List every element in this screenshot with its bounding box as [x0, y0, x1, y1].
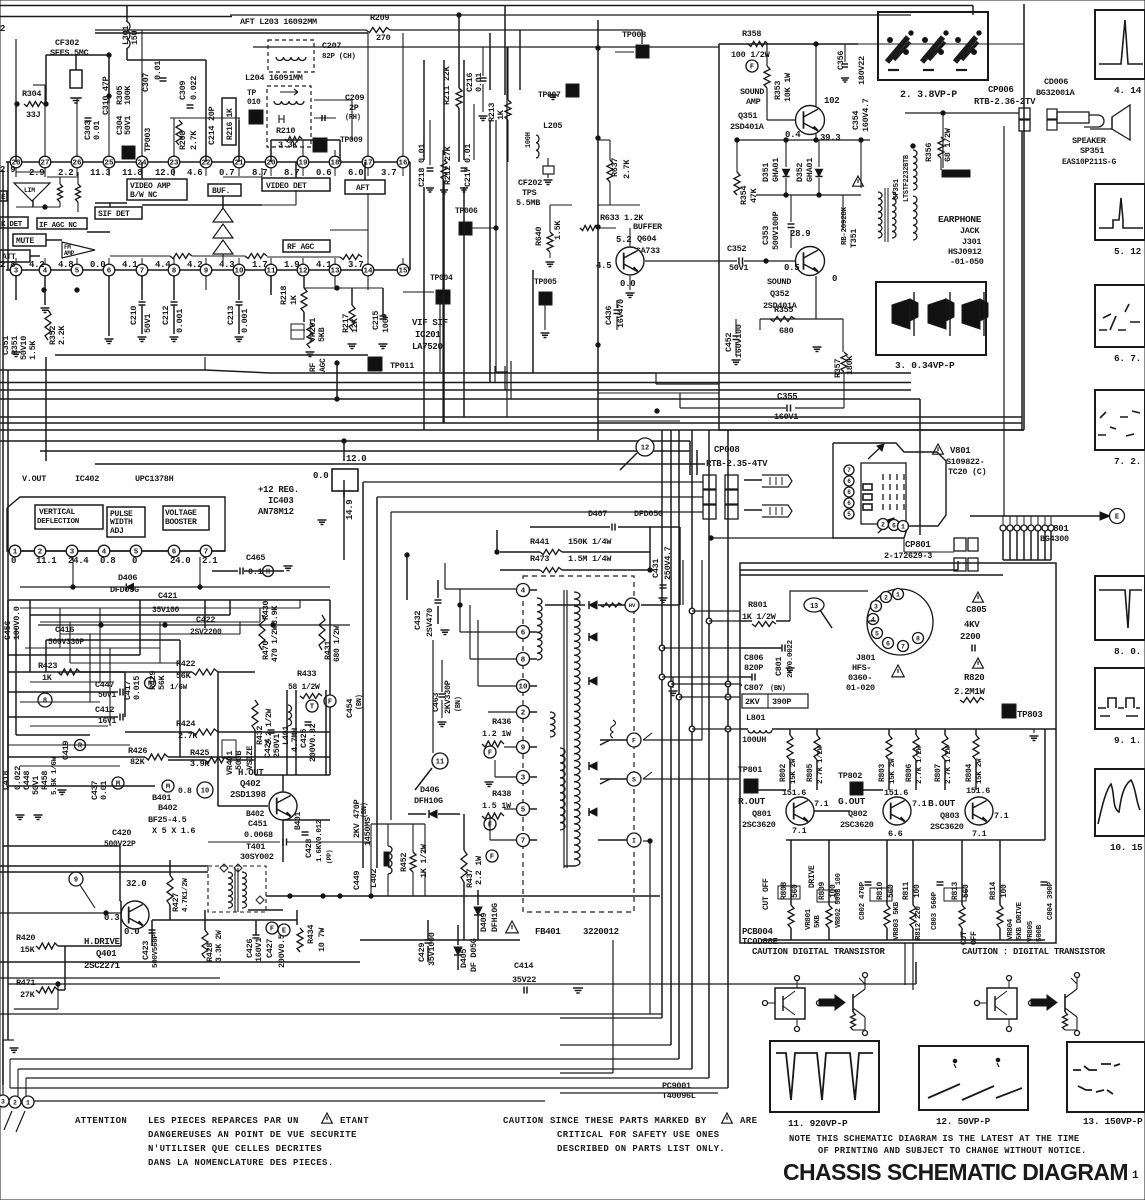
svg-text:5: 5: [75, 268, 80, 276]
svg-text:SOUND: SOUND: [767, 277, 791, 287]
svg-text:R640: R640: [534, 227, 544, 246]
svg-text:3.7: 3.7: [381, 168, 396, 178]
svg-text:R355: R355: [774, 305, 793, 315]
svg-text:50V1: 50V1: [123, 116, 133, 135]
svg-text:1K: 1K: [496, 109, 506, 120]
svg-text:D406: D406: [118, 573, 137, 583]
svg-text:14.9: 14.9: [345, 500, 355, 520]
svg-text:C454: C454: [345, 699, 355, 718]
svg-text:C355: C355: [777, 392, 797, 402]
svg-text:15K 2W: 15K 2W: [790, 758, 798, 784]
svg-text:E: E: [1115, 514, 1119, 522]
svg-text:TP011: TP011: [390, 361, 414, 371]
svg-text:C412: C412: [95, 705, 114, 715]
svg-text:C432: C432: [413, 611, 423, 630]
svg-text:R470: R470: [261, 641, 271, 660]
svg-text:10: 10: [201, 788, 209, 796]
svg-text:R809: R809: [818, 881, 827, 900]
svg-text:TP801: TP801: [738, 765, 762, 775]
svg-text:1.5M 1/4W: 1.5M 1/4W: [568, 554, 612, 564]
svg-text:5KB: 5KB: [317, 327, 327, 342]
svg-text:C310 47P: C310 47P: [101, 76, 111, 115]
svg-text:BF25-4.5: BF25-4.5: [148, 815, 187, 825]
svg-text:5: 5: [521, 807, 526, 815]
svg-text:FB401: FB401: [535, 927, 561, 937]
svg-text:13: 13: [810, 603, 818, 611]
svg-text:5: 5: [875, 630, 879, 637]
svg-text:Q402: Q402: [240, 779, 260, 789]
svg-text:10K 1W: 10K 1W: [783, 72, 793, 102]
svg-text:7.1: 7.1: [814, 799, 829, 809]
svg-text:4. 14: 4. 14: [1114, 85, 1142, 96]
svg-text:2SD1398: 2SD1398: [230, 790, 266, 800]
svg-text:AN78M12: AN78M12: [258, 507, 294, 517]
svg-text:470 1/2W: 470 1/2W: [271, 625, 280, 662]
svg-text:C353: C353: [761, 226, 771, 245]
svg-text:151.6: 151.6: [884, 788, 908, 798]
svg-text:R637: R637: [610, 158, 620, 177]
svg-text:24.4: 24.4: [68, 556, 89, 566]
svg-text:12.0: 12.0: [346, 454, 366, 464]
svg-text:C436: C436: [604, 306, 614, 325]
svg-text:4.8: 4.8: [58, 260, 73, 270]
svg-text:0.01: 0.01: [153, 61, 163, 80]
svg-text:(BN): (BN): [455, 696, 463, 712]
svg-text:BOOSTER: BOOSTER: [165, 518, 197, 527]
svg-text:R438: R438: [492, 789, 511, 799]
svg-text:PCB004: PCB004: [742, 927, 774, 937]
svg-text:R807: R807: [934, 763, 943, 782]
svg-text:R452: R452: [399, 853, 409, 872]
svg-text:M: M: [166, 784, 170, 792]
svg-text:180K: 180K: [845, 355, 855, 375]
svg-text:102: 102: [824, 96, 839, 106]
svg-text:GHA01: GHA01: [771, 158, 781, 182]
svg-text:SINCE THESE PARTS MARKED BY: SINCE THESE PARTS MARKED BY: [550, 1116, 707, 1126]
svg-text:C431: C431: [651, 559, 661, 578]
svg-text:TP803: TP803: [1017, 710, 1043, 720]
svg-text:R304: R304: [22, 89, 41, 99]
svg-text:1/6W: 1/6W: [170, 684, 188, 692]
svg-text:180V22: 180V22: [857, 56, 867, 85]
svg-text:2.2M1W: 2.2M1W: [954, 687, 986, 697]
svg-text:R424: R424: [176, 719, 195, 729]
svg-text:7: 7: [521, 838, 526, 846]
svg-text:68 1/2W: 68 1/2W: [943, 127, 953, 162]
svg-text:Q802: Q802: [848, 809, 867, 819]
svg-text:Q351: Q351: [738, 111, 757, 121]
svg-text:ATT: ATT: [2, 253, 16, 262]
svg-text:AGC: AGC: [319, 358, 328, 372]
svg-text:151.6: 151.6: [966, 786, 990, 796]
svg-text:ETANT: ETANT: [340, 1116, 369, 1126]
svg-text:10. 15: 10. 15: [1110, 842, 1143, 853]
svg-text:6: 6: [847, 500, 851, 507]
svg-text:1: 1: [901, 523, 905, 530]
svg-text:X 5 X 1.6: X 5 X 1.6: [152, 826, 195, 836]
svg-text:TP006: TP006: [455, 207, 478, 216]
svg-text:3220012: 3220012: [583, 927, 619, 937]
svg-text:0.01: 0.01: [99, 781, 109, 800]
svg-text:4.6: 4.6: [187, 168, 202, 178]
svg-text:4KV: 4KV: [964, 620, 980, 630]
svg-text:3: 3: [874, 603, 878, 610]
svg-text:1: 1: [896, 591, 900, 598]
svg-text:25: 25: [104, 160, 114, 168]
svg-text:2: 2: [13, 1099, 17, 1106]
svg-text:C423: C423: [141, 941, 151, 960]
svg-text:DESCRIBED ON PARTS LIST ONLY.: DESCRIBED ON PARTS LIST ONLY.: [557, 1144, 725, 1154]
svg-text:C213: C213: [226, 306, 236, 325]
svg-text:11.8: 11.8: [122, 168, 142, 178]
svg-text:C801: C801: [774, 657, 784, 676]
svg-text:C465: C465: [246, 553, 265, 563]
svg-text:D405: D405: [459, 949, 469, 968]
svg-text:160V1: 160V1: [774, 412, 798, 422]
svg-text:IC403: IC403: [268, 496, 294, 506]
svg-text:2KV: 2KV: [745, 697, 761, 707]
svg-text:EAS10P211S-G: EAS10P211S-G: [1062, 158, 1117, 167]
svg-text:0.0068: 0.0068: [244, 830, 273, 840]
svg-text:G.OUT: G.OUT: [838, 796, 866, 807]
svg-text:C207: C207: [322, 41, 341, 51]
svg-text:4.4: 4.4: [155, 260, 171, 270]
svg-text:S: S: [632, 776, 636, 783]
svg-text:C418: C418: [1, 771, 11, 790]
svg-text:OF PRINTING AND SUBJECT TO CHA: OF PRINTING AND SUBJECT TO CHANGE WITHOU…: [818, 1146, 1086, 1156]
svg-text:15K 2W: 15K 2W: [976, 758, 984, 784]
svg-text:3.7: 3.7: [348, 260, 363, 270]
svg-text:TP009: TP009: [340, 136, 363, 145]
svg-text:4.3: 4.3: [219, 260, 234, 270]
svg-text:TP: TP: [247, 89, 257, 98]
svg-text:CUT: CUT: [960, 931, 969, 945]
svg-text:1.5K: 1.5K: [28, 340, 38, 360]
svg-text:5.2: 5.2: [616, 235, 631, 245]
svg-text:Q352: Q352: [770, 289, 789, 299]
svg-text:1: 1: [1132, 1170, 1139, 1182]
svg-text:R210: R210: [276, 126, 295, 136]
svg-text:8: 8: [521, 657, 526, 665]
svg-text:2.2K: 2.2K: [57, 325, 67, 345]
svg-text:VERTICAL: VERTICAL: [39, 508, 76, 517]
svg-text:C212: C212: [161, 306, 171, 325]
svg-text:5.6K 1/6W: 5.6K 1/6W: [51, 756, 59, 795]
svg-text:19: 19: [298, 160, 308, 168]
svg-text:HSJ0912: HSJ0912: [948, 247, 982, 257]
svg-text:B.OUT: B.OUT: [928, 798, 956, 809]
svg-text:680 1/2W: 680 1/2W: [333, 625, 342, 662]
svg-text:AFT L203 16092MM: AFT L203 16092MM: [240, 17, 317, 27]
svg-text:VIF SIF: VIF SIF: [412, 318, 448, 328]
svg-text:(BN): (BN): [770, 685, 786, 693]
svg-text:TP003: TP003: [143, 128, 153, 152]
svg-text:R426: R426: [128, 746, 147, 756]
svg-text:82P (CH): 82P (CH): [322, 53, 356, 61]
svg-text:2.7K: 2.7K: [189, 130, 199, 150]
svg-text:E: E: [282, 928, 286, 936]
svg-text:I: I: [632, 837, 636, 844]
svg-text:IF AGC NC: IF AGC NC: [39, 222, 78, 230]
svg-text:B402: B402: [158, 803, 177, 813]
svg-text:VSIZE: VSIZE: [245, 746, 255, 770]
svg-text:4.2: 4.2: [187, 260, 202, 270]
svg-text:1.6KV0.012: 1.6KV0.012: [316, 819, 324, 862]
svg-text:5. 12: 5. 12: [1114, 246, 1142, 257]
svg-text:26: 26: [72, 160, 82, 168]
svg-text:GHA01: GHA01: [805, 158, 815, 182]
svg-text:0: 0: [132, 556, 137, 566]
svg-text:1.9: 1.9: [284, 260, 299, 270]
svg-text:R812 220: R812 220: [915, 906, 923, 940]
svg-text:C210: C210: [129, 306, 139, 325]
svg-text:9: 9: [74, 877, 78, 885]
svg-text:RF AGC: RF AGC: [287, 243, 315, 252]
svg-text:C352: C352: [727, 244, 746, 254]
svg-text:RTB-2.35-4TV: RTB-2.35-4TV: [706, 459, 768, 469]
svg-text:4.7K1/2W: 4.7K1/2W: [182, 878, 190, 912]
svg-text:R471: R471: [16, 978, 35, 988]
svg-text:VR805: VR805: [1027, 920, 1035, 942]
svg-text:27: 27: [40, 160, 49, 168]
svg-text:0.6: 0.6: [316, 168, 331, 178]
svg-text:160V1: 160V1: [254, 938, 264, 962]
svg-text:CAUTION DIGITAL TRANSISTOR: CAUTION DIGITAL TRANSISTOR: [752, 947, 886, 957]
svg-text:C309: C309: [178, 81, 188, 100]
svg-text:LA7520: LA7520: [412, 342, 443, 352]
svg-text:L205: L205: [543, 121, 562, 131]
svg-text:R423: R423: [38, 661, 57, 671]
svg-text:CUT OFF: CUT OFF: [762, 878, 771, 910]
svg-text:100UH: 100UH: [742, 735, 766, 745]
svg-text:2SV2200: 2SV2200: [190, 628, 222, 637]
svg-text:2: 2: [521, 710, 526, 718]
svg-text:7: 7: [901, 643, 905, 650]
svg-text:1: 1: [26, 1099, 30, 1106]
svg-text:VOLTAGE: VOLTAGE: [165, 509, 197, 518]
svg-text:680: 680: [779, 326, 794, 336]
svg-text:TC0D88E: TC0D88E: [742, 937, 779, 947]
svg-text:B/W NC: B/W NC: [130, 191, 158, 200]
svg-text:DFH10G: DFH10G: [414, 796, 443, 806]
svg-text:HFS-: HFS-: [852, 663, 871, 673]
svg-text:4.1: 4.1: [122, 260, 138, 270]
svg-text:12.0: 12.0: [155, 168, 175, 178]
svg-text:R218: R218: [279, 286, 289, 305]
svg-text:24.0: 24.0: [170, 556, 190, 566]
svg-text:D352: D352: [795, 163, 805, 182]
svg-text:R803: R803: [878, 763, 887, 782]
svg-text:D407: D407: [588, 509, 607, 519]
svg-text:CRITICAL FOR SAFETY USE ONES: CRITICAL FOR SAFETY USE ONES: [557, 1130, 720, 1140]
svg-text:11.1: 11.1: [36, 556, 57, 566]
svg-text:DEFLECTION: DEFLECTION: [37, 518, 79, 526]
svg-text:R811: R811: [902, 881, 911, 900]
svg-text:7.1: 7.1: [912, 799, 927, 809]
svg-text:11. 920VP-P: 11. 920VP-P: [788, 1118, 848, 1129]
svg-text:2.7K: 2.7K: [622, 159, 632, 179]
svg-text:DF D05G: DF D05G: [469, 938, 479, 972]
svg-text:7.1: 7.1: [792, 826, 807, 836]
svg-text:R208: R208: [178, 131, 188, 150]
svg-text:SP351: SP351: [1080, 146, 1104, 156]
svg-text:10: 10: [518, 684, 528, 692]
svg-text:14: 14: [363, 268, 373, 276]
svg-text:IC402: IC402: [75, 474, 99, 484]
svg-text:(PP): (PP): [326, 850, 333, 864]
svg-text:H: H: [266, 569, 270, 577]
svg-text:Q604: Q604: [637, 234, 656, 244]
svg-text:2SC3620: 2SC3620: [742, 820, 776, 830]
svg-text:C807: C807: [744, 683, 763, 693]
svg-text:+12 REG.: +12 REG.: [258, 485, 299, 495]
svg-text:0.0: 0.0: [313, 471, 328, 481]
svg-text:9: 9: [204, 268, 209, 276]
svg-text:3.9K: 3.9K: [270, 605, 280, 625]
svg-text:2: 2: [0, 24, 5, 34]
svg-text:R434: R434: [306, 925, 316, 944]
svg-text:C214 20P: C214 20P: [207, 106, 217, 145]
svg-text:PC9001: PC9001: [662, 1081, 691, 1091]
svg-text:27K: 27K: [20, 990, 36, 1000]
svg-text:2SV470: 2SV470: [425, 608, 435, 637]
svg-text:T: T: [310, 704, 314, 712]
svg-text:82K: 82K: [130, 757, 146, 767]
svg-text:AMP: AMP: [746, 97, 761, 107]
svg-text:C804 390P: C804 390P: [1047, 881, 1055, 920]
svg-text:0.8: 0.8: [100, 556, 115, 566]
svg-text:CHASSIS SCHEMATIC DIAGRAM: CHASSIS SCHEMATIC DIAGRAM: [783, 1159, 1128, 1185]
svg-text:C451: C451: [248, 819, 267, 829]
svg-text:HV: HV: [629, 602, 636, 609]
svg-text:VIDEO AMP: VIDEO AMP: [130, 182, 171, 191]
svg-text:B402: B402: [246, 810, 265, 819]
svg-text:7: 7: [847, 467, 851, 474]
svg-text:VR804: VR804: [1007, 918, 1015, 940]
svg-text:R813: R813: [951, 881, 960, 900]
svg-text:160V4.7: 160V4.7: [861, 98, 871, 132]
svg-text:R431: R431: [323, 641, 333, 660]
svg-text:15K: 15K: [20, 945, 36, 955]
svg-text:0: 0: [832, 274, 837, 284]
svg-text:R433: R433: [297, 669, 316, 679]
svg-text:0.0: 0.0: [90, 260, 105, 270]
svg-text:VR803 5KB: VR803 5KB: [893, 901, 901, 940]
svg-text:3: 3: [521, 775, 526, 783]
svg-text:L801: L801: [746, 713, 765, 723]
svg-text:MUTE: MUTE: [16, 237, 35, 246]
svg-text:Q803: Q803: [940, 811, 959, 821]
svg-text:100: 100: [1000, 884, 1009, 898]
svg-text:SPEAKER: SPEAKER: [1072, 136, 1107, 146]
svg-text:0.5: 0.5: [784, 263, 799, 273]
svg-text:2SD401A: 2SD401A: [730, 122, 765, 132]
svg-text:CP801: CP801: [905, 540, 931, 550]
svg-text:CF302: CF302: [55, 38, 79, 48]
svg-text:TP802: TP802: [838, 771, 862, 781]
svg-text:33J: 33J: [26, 110, 41, 120]
svg-text:0.1: 0.1: [248, 567, 263, 577]
svg-text:T351: T351: [849, 229, 859, 248]
svg-text:9: 9: [521, 745, 526, 753]
svg-text:C805: C805: [966, 605, 986, 615]
svg-text:VR801: VR801: [805, 908, 813, 930]
svg-text:C209: C209: [345, 93, 364, 103]
svg-text:15K 2W: 15K 2W: [889, 758, 897, 784]
svg-text:EARPHONE: EARPHONE: [938, 214, 982, 225]
svg-text:AFT: AFT: [356, 184, 370, 193]
svg-text:2SC3620: 2SC3620: [930, 822, 964, 832]
svg-text:TPS: TPS: [522, 188, 537, 198]
svg-text:11.3: 11.3: [90, 168, 110, 178]
svg-text:13. 150VP-P: 13. 150VP-P: [1083, 1116, 1143, 1127]
svg-text:12: 12: [298, 268, 308, 276]
svg-text:58 1/2W: 58 1/2W: [288, 683, 320, 692]
svg-text:VIDEO DET: VIDEO DET: [266, 182, 307, 191]
svg-text:16: 16: [398, 160, 408, 168]
svg-text:1.5K: 1.5K: [553, 220, 563, 240]
svg-text:11: 11: [436, 759, 444, 767]
svg-text:0: 0: [11, 556, 16, 566]
svg-text:0.001: 0.001: [175, 309, 185, 333]
svg-text:SOUND: SOUND: [740, 87, 764, 97]
svg-text:35V100: 35V100: [152, 606, 180, 615]
svg-text:10: 10: [234, 268, 244, 276]
svg-text:4: 4: [871, 616, 875, 623]
svg-text:010: 010: [247, 98, 261, 107]
svg-text:100 1/2W: 100 1/2W: [731, 50, 771, 60]
svg-text:R.OUT: R.OUT: [738, 796, 766, 807]
svg-text:R458: R458: [40, 771, 50, 790]
svg-text:2: 2: [884, 594, 888, 601]
svg-text:C802 470P: C802 470P: [859, 881, 867, 920]
svg-text:32.0: 32.0: [126, 879, 146, 889]
svg-text:R802: R802: [779, 763, 788, 782]
svg-text:WIDTH: WIDTH: [110, 518, 133, 527]
svg-text:0.8: 0.8: [178, 787, 192, 796]
svg-text:R808: R808: [780, 881, 789, 900]
svg-text:C215: C215: [371, 311, 381, 330]
svg-text:5: 5: [847, 511, 851, 518]
svg-text:8. 0.: 8. 0.: [1114, 646, 1141, 657]
svg-text:820P: 820P: [744, 663, 763, 673]
svg-text:4: 4: [521, 588, 526, 596]
svg-text:B401: B401: [152, 793, 171, 803]
svg-text:Q401: Q401: [96, 949, 117, 959]
svg-text:28.9: 28.9: [790, 229, 810, 239]
svg-text:R805: R805: [806, 763, 815, 782]
svg-text:CP008: CP008: [714, 445, 740, 455]
svg-text:BUF.: BUF.: [212, 187, 230, 196]
svg-text:SFES.5MC: SFES.5MC: [50, 48, 89, 58]
svg-text:270: 270: [376, 33, 391, 43]
svg-text:DFH10G: DFH10G: [490, 903, 500, 932]
svg-text:R820: R820: [964, 673, 984, 683]
svg-text:LIM: LIM: [24, 187, 35, 194]
svg-text:56K: 56K: [157, 674, 167, 690]
svg-text:390P: 390P: [772, 697, 791, 707]
svg-text:9. 1.: 9. 1.: [1114, 735, 1141, 746]
svg-text:JACK: JACK: [960, 226, 980, 236]
svg-text:C427: C427: [265, 939, 275, 958]
svg-text:11: 11: [266, 268, 276, 276]
svg-text:D351: D351: [761, 163, 771, 182]
svg-text:0360-: 0360-: [848, 673, 872, 683]
svg-text:V801: V801: [950, 446, 971, 456]
svg-text:C449: C449: [352, 871, 362, 890]
svg-text:6: 6: [892, 522, 896, 529]
svg-text:CAUTION: CAUTION: [503, 1116, 544, 1126]
